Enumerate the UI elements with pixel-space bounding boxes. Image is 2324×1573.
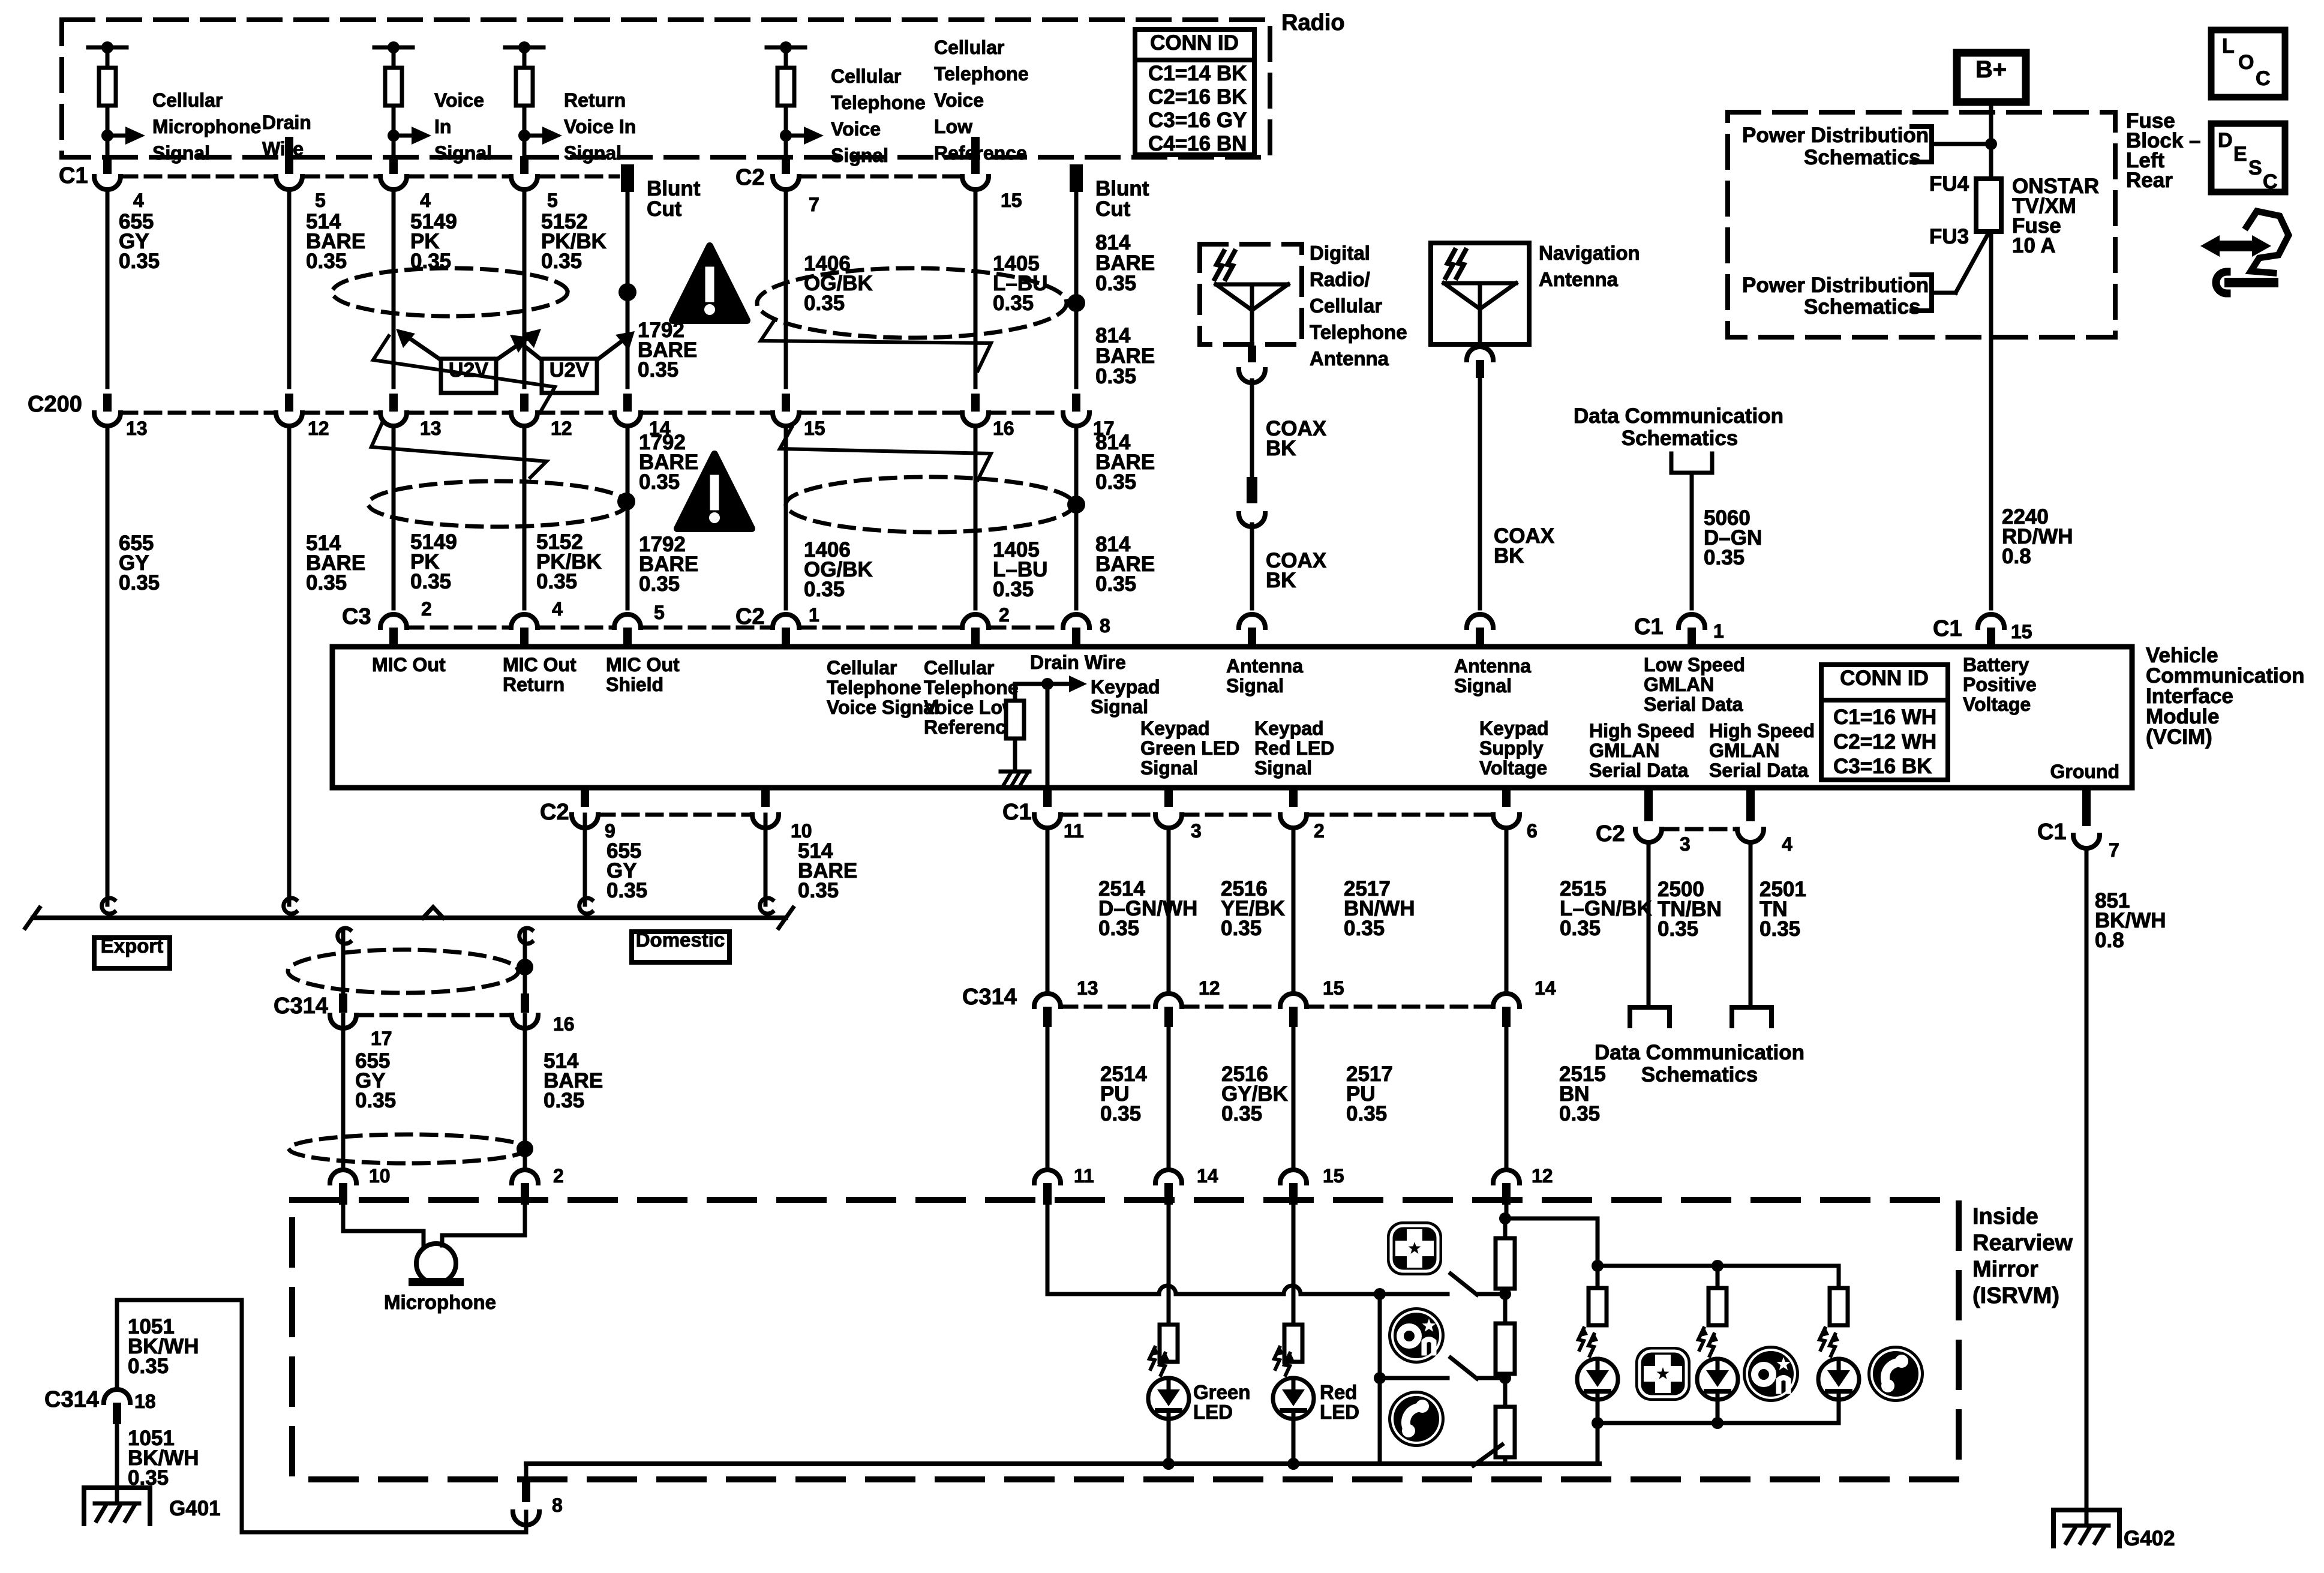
svg-text:Telephone: Telephone xyxy=(827,677,921,698)
svg-text:Return: Return xyxy=(564,89,626,111)
C1/C2 row cup x=874 xyxy=(511,176,538,190)
svg-text:0.35: 0.35 xyxy=(1095,470,1136,494)
button icon phone (mirror) xyxy=(1867,1346,1924,1402)
bracket 1 xyxy=(1912,127,1932,162)
svg-text:Schematics: Schematics xyxy=(1622,427,1739,450)
wire 851 BK/WH xyxy=(2085,848,2089,1525)
C200 cup x=656 xyxy=(380,413,407,426)
keypad wire lower x=1746 xyxy=(1046,1027,1050,1166)
green LED wire to bus xyxy=(1167,1419,1171,1464)
svg-text:Drain Wire: Drain Wire xyxy=(1030,652,1126,673)
svg-text:Navigation: Navigation xyxy=(1539,242,1640,264)
ladder wire bottom xyxy=(1503,1457,1508,1464)
VCIM module box xyxy=(332,647,2132,788)
fuse block dashed box xyxy=(1728,112,2115,337)
svg-text:4: 4 xyxy=(1782,833,1792,855)
microphone symbol xyxy=(416,1244,456,1283)
digital antenna VCIM cup xyxy=(1239,614,1265,628)
navigation antenna box xyxy=(1431,243,1529,344)
ladder dot 1 xyxy=(1499,1288,1511,1300)
svg-text:Ground: Ground xyxy=(2050,761,2119,782)
C1/C2 row pin stub x=179 xyxy=(103,156,112,174)
svg-text:4: 4 xyxy=(133,190,144,211)
svg-text:12: 12 xyxy=(551,418,572,439)
C1 row dashed line xyxy=(304,175,379,179)
ladder wire mid2 xyxy=(1503,1374,1508,1407)
twist squiggle (3,4) sec2 xyxy=(371,424,547,478)
C200 pin stub x=179 xyxy=(103,394,112,412)
svg-text:8: 8 xyxy=(552,1494,563,1516)
nav antenna VCIM cup xyxy=(1467,614,1493,628)
svg-text:Supply: Supply xyxy=(1479,737,1544,759)
C200 pin stub x=874 xyxy=(520,394,529,412)
svg-text:(ISRVM): (ISRVM) xyxy=(1972,1283,2059,1308)
C314 keypad dashed row xyxy=(1062,1005,1154,1009)
keypad wire lower x=2156 xyxy=(1292,1027,1296,1166)
Radio dashed box xyxy=(62,20,1270,157)
C1/C2 row cup x=482 xyxy=(276,176,302,190)
svg-text:9: 9 xyxy=(605,820,615,842)
svg-text:C2=12 WH: C2=12 WH xyxy=(1833,730,1936,754)
ISRVM entry cup pin 15 xyxy=(1280,1170,1307,1183)
svg-text:10: 10 xyxy=(369,1165,391,1187)
svg-text:(VCIM): (VCIM) xyxy=(2146,725,2212,749)
C1 row dashed line xyxy=(800,175,961,179)
svg-text:C1: C1 xyxy=(59,163,88,188)
wire section2 x=179 xyxy=(106,426,110,608)
VCIM bottom cup C2-3 (GMLAN) xyxy=(1644,788,1653,821)
twisted pair ellipse (3,4) sec1 xyxy=(332,268,568,316)
svg-text:Telephone: Telephone xyxy=(831,92,926,113)
C2 bottom dashed row xyxy=(599,813,751,817)
Export box xyxy=(94,938,170,968)
C1 bottom dashed row xyxy=(1183,813,1279,817)
svg-text:C2: C2 xyxy=(1596,821,1625,846)
svg-text:Signal: Signal xyxy=(564,142,621,164)
green LED branch wire xyxy=(1167,1205,1171,1325)
svg-text:5: 5 xyxy=(315,190,326,211)
svg-text:FU4: FU4 xyxy=(1929,172,1969,196)
svg-text:GMLAN: GMLAN xyxy=(1709,740,1779,761)
svg-text:Voice: Voice xyxy=(434,89,484,111)
svg-text:10: 10 xyxy=(791,820,812,842)
svg-text:0.35: 0.35 xyxy=(541,250,582,273)
red LED resistor xyxy=(1284,1325,1302,1362)
GMLAN wire x=2748 xyxy=(1647,842,1651,1007)
svg-text:16: 16 xyxy=(993,418,1014,439)
wire pin8 to corner xyxy=(242,1530,526,1535)
bracket 2 xyxy=(1912,275,1932,311)
twisted pair ellipse (3,4) sec2 xyxy=(368,481,627,527)
svg-text:1: 1 xyxy=(1713,620,1724,642)
radio internal circuit Cellular Telephone Voice Signal pin x=1310 xyxy=(767,46,805,50)
svg-text:C2: C2 xyxy=(735,165,765,190)
button icon OnStar (small) xyxy=(1388,1307,1445,1364)
VCIM bottom cup C1-6 xyxy=(1502,788,1511,807)
junction dot shield1 sec1 xyxy=(618,283,636,301)
wire to G401 xyxy=(115,1424,119,1503)
svg-text:Cellular: Cellular xyxy=(924,657,994,679)
svg-text:14: 14 xyxy=(1535,977,1556,999)
switch common horizontal 2 xyxy=(1380,1376,1448,1380)
ladder resistor 1 xyxy=(1496,1238,1515,1289)
wire section2 x=874 xyxy=(523,426,527,608)
svg-text:Keypad: Keypad xyxy=(1254,718,1324,739)
keypad supply wire xyxy=(1505,1205,1509,1218)
svg-text:Data Communication: Data Communication xyxy=(1574,404,1783,428)
ISRVM pin 8 drop xyxy=(524,1464,529,1482)
svg-text:Antenna: Antenna xyxy=(1454,655,1531,677)
svg-text:Domestic: Domestic xyxy=(636,929,725,951)
Domestic box xyxy=(632,932,729,962)
C314 cup pin 18 xyxy=(104,1389,130,1403)
C1/C2 row pin stub x=656 xyxy=(389,156,398,174)
C1/C2 row cup x=179 xyxy=(94,176,121,190)
svg-text:0.35: 0.35 xyxy=(606,879,647,902)
svg-text:Signal: Signal xyxy=(1226,675,1284,697)
mic wire left xyxy=(341,1205,346,1231)
wire C314 to mic row x=875 xyxy=(523,1015,527,1170)
svg-text:0.35: 0.35 xyxy=(639,572,680,596)
svg-text:O: O xyxy=(2238,51,2254,74)
svg-text:0.35: 0.35 xyxy=(1221,1102,1262,1125)
svg-text:Signal: Signal xyxy=(1140,757,1198,779)
VCIM top cup x=1046 xyxy=(614,614,641,628)
svg-text:Cellular: Cellular xyxy=(831,65,901,87)
C314 cup 17 xyxy=(339,993,347,1013)
wire section2 x=1310 xyxy=(784,426,788,608)
svg-text:0.35: 0.35 xyxy=(306,250,347,273)
svg-text:G401: G401 xyxy=(169,1497,221,1520)
svg-text:0.35: 0.35 xyxy=(119,250,160,273)
svg-text:0.35: 0.35 xyxy=(1095,365,1136,388)
svg-text:B+: B+ xyxy=(1975,56,2007,83)
svg-text:0.35: 0.35 xyxy=(1221,917,1262,940)
svg-text:Reference: Reference xyxy=(924,716,1017,738)
svg-text:0.8: 0.8 xyxy=(2095,929,2124,952)
svg-text:17: 17 xyxy=(371,1028,392,1049)
twist squiggle (5,6) sec1 xyxy=(761,321,991,371)
svg-text:Rearview: Rearview xyxy=(1972,1230,2073,1256)
svg-text:Voice Low: Voice Low xyxy=(924,697,1017,718)
VCIM cup C1-1 xyxy=(1679,614,1705,628)
C200 cup x=1310 xyxy=(773,413,799,426)
switch common dot 2 xyxy=(1374,1372,1386,1384)
svg-text:MIC Out: MIC Out xyxy=(372,654,446,676)
svg-text:C314: C314 xyxy=(274,993,328,1019)
ladder dot 2 xyxy=(1499,1372,1511,1384)
ISRVM ground bus xyxy=(526,1461,1599,1466)
GMLAN wire x=2918 xyxy=(1749,842,1753,1007)
bus center notch xyxy=(423,907,443,918)
C3/C2 row dashed line xyxy=(408,626,510,630)
C200 cup x=1626 xyxy=(962,413,989,426)
C314 keypad dashed row xyxy=(1183,1005,1279,1009)
svg-text:C1: C1 xyxy=(1634,614,1664,640)
svg-text:0.35: 0.35 xyxy=(1095,572,1136,596)
data comm bracket (top) xyxy=(1671,454,1712,473)
svg-text:15: 15 xyxy=(2011,621,2032,643)
ground G402 xyxy=(2053,1508,2119,1512)
svg-text:S: S xyxy=(2248,157,2262,179)
svg-text:18: 18 xyxy=(134,1391,156,1412)
green LED symbol xyxy=(1148,1378,1189,1419)
C1/C2 row pin stub x=482 xyxy=(285,156,293,174)
svg-text:0.35: 0.35 xyxy=(1559,1102,1600,1125)
diagonal bracket2 to fuse wire xyxy=(1932,291,1956,295)
nav antenna cup+wire xyxy=(1467,347,1493,360)
twisted pair ellipse (5,6) sec1 xyxy=(757,268,1067,338)
C314 keypad dashed row xyxy=(1308,1005,1492,1009)
svg-text:0.35: 0.35 xyxy=(410,570,451,593)
svg-text:8: 8 xyxy=(1100,615,1110,637)
svg-text:15: 15 xyxy=(1323,977,1344,999)
shield blunt cut 2 xyxy=(1070,164,1083,192)
svg-text:Battery: Battery xyxy=(1963,654,2029,676)
svg-text:0.35: 0.35 xyxy=(1658,917,1698,941)
junction dot export pair upper xyxy=(517,959,533,975)
svg-text:13: 13 xyxy=(126,418,148,439)
keypad signal wire in ISRVM xyxy=(1046,1205,1050,1294)
VCIM bottom cup C1-3 xyxy=(1164,788,1173,807)
C1 bottom dashed row xyxy=(1308,813,1492,817)
data comm bracket bottom 2 xyxy=(1732,1007,1771,1026)
ladder resistor 2 xyxy=(1496,1323,1515,1374)
C1 bottom dashed row xyxy=(1062,813,1154,817)
ISRVM entry cup pin 12 xyxy=(1493,1170,1520,1183)
svg-text:Antenna: Antenna xyxy=(1226,655,1303,677)
svg-text:0.35: 0.35 xyxy=(1098,917,1139,940)
svg-text:C200: C200 xyxy=(28,392,82,417)
wire bracket1 to fuse wire xyxy=(1932,142,1991,146)
svg-text:0.35: 0.35 xyxy=(804,578,845,601)
svg-text:Export: Export xyxy=(101,935,164,957)
svg-text:CONN ID: CONN ID xyxy=(1840,667,1929,690)
svg-text:7: 7 xyxy=(2109,839,2119,861)
radio drain wire stub x=482 xyxy=(285,137,293,157)
svg-text:Reference: Reference xyxy=(934,142,1027,164)
svg-text:15: 15 xyxy=(804,418,825,439)
C1/C2 row cup x=1310 xyxy=(773,176,799,190)
svg-text:C2=16 BK: C2=16 BK xyxy=(1148,85,1247,109)
VCIM bottom cup C2-10 xyxy=(761,788,770,807)
svg-text:Low: Low xyxy=(934,116,972,137)
svg-text:0.35: 0.35 xyxy=(128,1355,169,1378)
wire section1 x=1626 xyxy=(974,191,978,387)
digital antenna inline connector xyxy=(1247,477,1257,503)
ladder resistor 3 xyxy=(1496,1407,1515,1457)
svg-text:0.35: 0.35 xyxy=(1560,917,1601,940)
svg-text:Radio/: Radio/ xyxy=(1310,268,1370,290)
svg-text:0.8: 0.8 xyxy=(2002,545,2031,568)
button icon emergency (mirror) xyxy=(1635,1347,1691,1401)
red LED branch wire xyxy=(1292,1205,1296,1325)
svg-text:0.35: 0.35 xyxy=(1095,272,1136,295)
keypad signal arrow xyxy=(1047,682,1069,686)
svg-text:C: C xyxy=(2256,67,2271,90)
svg-text:3: 3 xyxy=(1680,833,1691,855)
svg-text:CONN ID: CONN ID xyxy=(1150,31,1239,55)
svg-text:Serial Data: Serial Data xyxy=(1589,760,1689,781)
data comm bracket bottom 1 xyxy=(1630,1007,1670,1026)
VCIM keypad signal wire + junction xyxy=(1041,678,1053,690)
wire C2-10 to bus xyxy=(764,815,768,905)
svg-text:0.35: 0.35 xyxy=(798,879,839,902)
junction dot fuse wire xyxy=(1985,138,1997,150)
svg-text:BK: BK xyxy=(1266,437,1296,460)
svg-text:Power Distribution: Power Distribution xyxy=(1742,124,1929,147)
svg-text:Cellular: Cellular xyxy=(152,89,223,111)
wire section1 x=482 xyxy=(287,191,292,387)
VCIM top cup x=1794 xyxy=(1063,614,1089,628)
svg-text:5: 5 xyxy=(547,190,558,211)
LED module bottom bus xyxy=(1598,1421,1839,1425)
wire down to C314-18 xyxy=(115,1300,119,1389)
VCIM bottom cup C1-7 xyxy=(2082,788,2091,826)
bus right tick xyxy=(779,908,793,928)
svg-text:C1: C1 xyxy=(2037,819,2067,845)
C200 pin stub x=482 xyxy=(285,394,293,412)
svg-text:MIC Out: MIC Out xyxy=(503,654,577,676)
C200 cup x=1046 xyxy=(614,413,641,426)
svg-text:Voice: Voice xyxy=(831,118,881,140)
svg-text:1: 1 xyxy=(809,604,819,626)
svg-text:C314: C314 xyxy=(962,984,1017,1010)
svg-text:0.35: 0.35 xyxy=(993,578,1034,601)
svg-text:C3=16 GY: C3=16 GY xyxy=(1148,109,1247,132)
LOC icon box xyxy=(2211,30,2285,97)
svg-text:U2V: U2V xyxy=(449,359,488,382)
VCIM bottom cup C2-4 (GMLAN) xyxy=(1746,788,1755,821)
svg-text:5: 5 xyxy=(654,602,665,623)
twist squiggle (5,6) sec2 xyxy=(780,427,991,480)
svg-text:Antenna: Antenna xyxy=(1310,347,1389,370)
C314 keypad cup 14 xyxy=(1493,993,1520,1007)
wire section1 x=179 xyxy=(106,191,110,387)
mic row cup pin 10 xyxy=(330,1170,356,1183)
junction dot export pair lower xyxy=(517,1140,533,1157)
svg-text:Telephone: Telephone xyxy=(1310,321,1407,343)
junction dot shield2 xyxy=(1067,294,1085,312)
svg-text:C3=16 BK: C3=16 BK xyxy=(1833,755,1932,778)
svg-text:16: 16 xyxy=(553,1013,575,1035)
svg-text:Red: Red xyxy=(1320,1381,1357,1403)
VCIM bottom cup C2-9 xyxy=(581,788,589,807)
VCIM top cup x=874 xyxy=(511,614,538,628)
svg-text:0.35: 0.35 xyxy=(639,470,680,494)
C2 GMLAN dashed row xyxy=(1663,827,1736,831)
svg-text:12: 12 xyxy=(308,418,329,439)
svg-text:GMLAN: GMLAN xyxy=(1644,674,1714,695)
wire bus to C314 x=572 xyxy=(338,928,350,944)
wire C200-13 to bus xyxy=(106,426,110,905)
svg-text:11: 11 xyxy=(1064,820,1084,842)
keypad wire upper x=1746 xyxy=(1046,828,1050,990)
svg-text:High Speed: High Speed xyxy=(1589,720,1695,742)
twisted pair ellipse (export pair lower) xyxy=(289,1134,527,1163)
ISRVM entry cup pin 11 xyxy=(1034,1170,1061,1183)
svg-text:Serial Data: Serial Data xyxy=(1709,760,1809,781)
C314 cup 16 xyxy=(521,993,529,1013)
svg-text:0.35: 0.35 xyxy=(536,570,577,593)
C200 cup x=874 xyxy=(511,413,538,426)
button icon emergency (small) xyxy=(1387,1221,1442,1275)
svg-text:Antenna: Antenna xyxy=(1539,268,1619,290)
wire bus to C314 x=875 xyxy=(520,928,532,944)
svg-text:C314: C314 xyxy=(44,1387,99,1412)
svg-text:Green: Green xyxy=(1193,1381,1250,1403)
bus left tick xyxy=(25,908,40,928)
svg-text:Telephone: Telephone xyxy=(934,63,1029,85)
svg-text:C1: C1 xyxy=(1933,616,1962,641)
wire section2 x=482 xyxy=(287,426,292,608)
svg-text:0.35: 0.35 xyxy=(306,571,347,595)
C1 row dashed line xyxy=(122,175,275,179)
svg-text:D: D xyxy=(2218,129,2233,152)
wire section1 x=874 xyxy=(523,191,527,387)
red LED symbol xyxy=(1273,1378,1314,1419)
keypad wire upper x=1948 xyxy=(1167,828,1171,990)
switch 1 arm xyxy=(1451,1274,1477,1295)
ladder wire mid xyxy=(1503,1289,1508,1323)
svg-text:Cut: Cut xyxy=(647,197,682,221)
svg-text:C: C xyxy=(2263,170,2278,193)
wire C200-12 to bus xyxy=(287,426,292,905)
C1/C2 row pin stub x=874 xyxy=(520,156,529,174)
red LED wire to bus xyxy=(1292,1419,1296,1464)
svg-text:LED: LED xyxy=(1320,1401,1359,1423)
wire section2 x=1626 xyxy=(974,426,978,608)
C314 left dashed row xyxy=(358,1013,511,1017)
svg-text:Red LED: Red LED xyxy=(1254,737,1334,759)
C3/C2 row dashed line xyxy=(642,626,771,630)
C200 dashed line xyxy=(642,411,771,415)
svg-text:11: 11 xyxy=(1074,1165,1094,1187)
svg-text:Return: Return xyxy=(503,674,565,695)
svg-text:Shield: Shield xyxy=(606,674,663,695)
junction dot shield2 sec2 xyxy=(1067,496,1085,514)
svg-text:C2: C2 xyxy=(540,800,569,825)
radio internal circuit Cellular Microphone Signal pin x=179 xyxy=(88,46,127,50)
mic wire right xyxy=(523,1205,527,1235)
C200 dashed line xyxy=(990,411,1062,415)
svg-text:Signal: Signal xyxy=(831,145,888,166)
svg-text:GMLAN: GMLAN xyxy=(1589,740,1659,761)
svg-text:0.35: 0.35 xyxy=(804,292,845,315)
svg-text:BK: BK xyxy=(1266,569,1296,592)
svg-text:Signal: Signal xyxy=(1254,757,1312,779)
svg-text:Power Distribution: Power Distribution xyxy=(1742,274,1929,297)
C200 dashed line xyxy=(122,411,275,415)
radio internal circuit Return Voice In Signal pin x=874 xyxy=(505,46,544,50)
svg-text:Schematics: Schematics xyxy=(1641,1063,1758,1086)
wire corner left xyxy=(117,1298,242,1302)
green LED resistor xyxy=(1160,1325,1178,1362)
switch 2 arm xyxy=(1451,1358,1477,1379)
svg-text:BK: BK xyxy=(1494,544,1524,568)
svg-text:Voltage: Voltage xyxy=(1479,757,1547,779)
digital radio antenna dashed box xyxy=(1200,244,1302,344)
switch 3 arm xyxy=(1473,1445,1502,1466)
mic row cup pin 2 xyxy=(512,1170,538,1183)
svg-text:Drain: Drain xyxy=(262,112,311,133)
ground G401 xyxy=(84,1485,150,1490)
button icon OnStar (mirror) xyxy=(1743,1346,1799,1402)
C200 dashed line xyxy=(800,411,961,415)
C200 dashed line xyxy=(408,411,510,415)
wire section1 x=1310 xyxy=(784,191,788,387)
keypad signal junction dot xyxy=(1374,1288,1386,1300)
